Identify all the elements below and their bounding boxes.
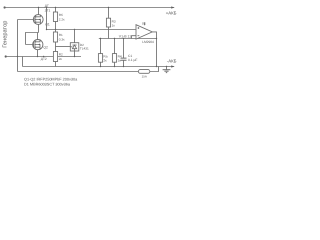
svg-text:+АКБ: +АКБ	[166, 10, 177, 15]
wire inverting input	[132, 36, 137, 39]
svg-text:ДТ2: ДТ2	[41, 57, 47, 61]
shunt regulator D2 TL431	[70, 30, 79, 58]
resistor R5	[112, 39, 116, 67]
resistor R2	[53, 47, 57, 67]
svg-text:Q1: Q1	[45, 22, 50, 26]
wire mid sense line	[6, 56, 81, 58]
junction dots	[17, 7, 167, 67]
svg-text:2к: 2к	[59, 57, 63, 61]
bottom rail	[23, 66, 175, 68]
svg-text:Генератор: Генератор	[3, 21, 9, 48]
svg-text:C1: C1	[128, 54, 132, 58]
capacitor C1	[121, 39, 127, 67]
node +AKB arrow	[171, 6, 174, 8]
terminal: generator minus	[5, 55, 7, 57]
svg-text:Q2: Q2	[43, 45, 48, 49]
resistor R4	[98, 39, 102, 67]
svg-text:1к: 1к	[112, 23, 116, 27]
svg-text:Q1-Q2 IRFP250MPbF 200v30a: Q1-Q2 IRFP250MPbF 200v30a	[24, 78, 78, 82]
wire Q1 source to Q2 gate	[26, 33, 39, 45]
ground	[163, 67, 171, 73]
transistor Q2	[26, 33, 43, 57]
wire node V1-B horizontal	[47, 29, 137, 31]
wire ref	[56, 46, 71, 48]
wire op-amp output	[152, 32, 156, 67]
wire feedback	[99, 38, 157, 40]
node dots	[55, 29, 56, 30]
svg-text:LM2904: LM2904	[142, 40, 154, 44]
terminal: generator plus	[4, 6, 6, 8]
wire corner to bottom rail	[22, 57, 24, 67]
svg-text:0.3к: 0.3к	[59, 37, 65, 41]
transistor Q1	[18, 8, 44, 33]
op-amp U1	[136, 22, 152, 39]
svg-text:2.2к: 2.2к	[59, 17, 65, 21]
wire top rail	[5, 7, 175, 9]
svg-text:0.1 µF: 0.1 µF	[128, 58, 137, 62]
wire gate bus	[17, 20, 19, 72]
svg-text:TL431: TL431	[80, 47, 89, 51]
svg-text:2Т1: 2Т1	[45, 9, 51, 13]
svg-text:-АКБ: -АКБ	[167, 58, 177, 63]
fuse 15A	[138, 70, 149, 74]
svg-text:V1-B 11: V1-B 11	[119, 34, 131, 38]
diode D1 column wire	[46, 8, 48, 30]
node -AKB arrow	[171, 65, 174, 67]
svg-text:D1 MBR6003SCT 300v36a: D1 MBR6003SCT 300v36a	[24, 83, 71, 87]
resistor 2.2k	[53, 8, 57, 30]
wire lower gate return line	[18, 67, 159, 72]
resistor R3	[106, 8, 110, 39]
resistor R1	[53, 30, 57, 47]
svg-text:U1: U1	[142, 21, 146, 25]
svg-text:15А: 15А	[142, 74, 147, 78]
svg-text:2к: 2к	[103, 59, 107, 63]
